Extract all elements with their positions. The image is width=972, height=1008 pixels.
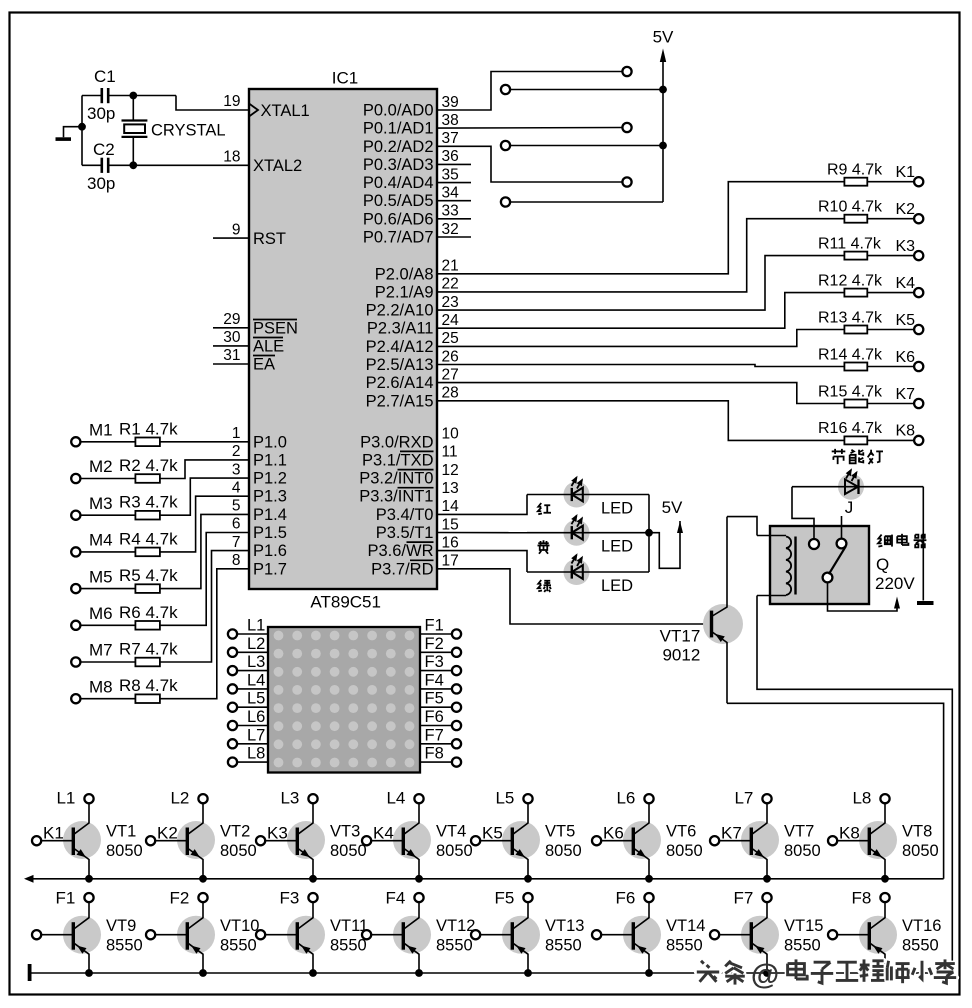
- VT16 emitter: [869, 943, 885, 973]
- svg-text:R7 4.7k: R7 4.7k: [119, 640, 178, 659]
- svg-text:L1: L1: [247, 617, 265, 635]
- terminal K5: [914, 325, 923, 334]
- VT12 collector: [403, 902, 419, 929]
- wire crystal top: [132, 96, 134, 121]
- wire LED bus to 5V arrow: [649, 521, 680, 568]
- VT4 emitter: [403, 848, 419, 879]
- VT7 collector: [751, 803, 767, 834]
- wire P0.3 stub pin 36: [437, 163, 471, 165]
- terminal M4: [71, 547, 80, 556]
- svg-text:3: 3: [232, 461, 241, 478]
- svg-text:8550: 8550: [436, 936, 473, 954]
- wire C1 right to node: [110, 95, 177, 97]
- node VT13 emitter junction: [524, 969, 532, 977]
- transistor VT5 body circle: [502, 821, 540, 859]
- svg-text:L5: L5: [495, 789, 514, 808]
- wire VT15 base: [719, 934, 751, 936]
- wire VT12 base: [371, 934, 403, 936]
- VT8 emitter arrow (NPN): [873, 849, 882, 857]
- wire VT17 emitter to NPN bus: [727, 703, 944, 879]
- terminal M8: [71, 694, 80, 703]
- svg-text:10: 10: [442, 426, 460, 443]
- terminal L6 bottom: [644, 794, 653, 803]
- wire matrix to F7: [420, 743, 452, 745]
- svg-text:P0.0/AD0: P0.0/AD0: [363, 102, 434, 120]
- resistor R11: [844, 252, 867, 260]
- terminal F5 matrix: [452, 703, 461, 712]
- 5V arrow top: [660, 49, 666, 63]
- terminal K3 bottom: [256, 836, 265, 845]
- terminal F2 bottom: [198, 893, 207, 902]
- VT5 base bar: [511, 828, 514, 856]
- VT17 emitter arrow (PNP): [715, 634, 725, 642]
- wire M6 to resistor: [80, 624, 135, 626]
- svg-text:5V: 5V: [653, 28, 674, 47]
- wire L5 to matrix: [237, 706, 268, 708]
- svg-text:VT5: VT5: [545, 823, 575, 841]
- VT8 collector: [869, 803, 885, 834]
- svg-text:F7: F7: [734, 889, 754, 908]
- svg-text:VT8: VT8: [902, 823, 932, 841]
- VT7 base bar: [750, 828, 753, 856]
- transistor VT14 body circle: [623, 916, 661, 954]
- svg-text:P2.3/A11: P2.3/A11: [367, 320, 434, 338]
- svg-text:P3.1/TXD: P3.1/TXD: [362, 451, 434, 469]
- VT12 base bar: [402, 922, 405, 950]
- svg-text:PSEN: PSEN: [253, 320, 298, 338]
- watermark toutiao text: [697, 961, 719, 982]
- wire VT16 base: [837, 934, 869, 936]
- svg-text:VT9: VT9: [106, 917, 136, 935]
- VT7 emitter arrow (NPN): [755, 849, 764, 857]
- IC U1 AT89C51 body: [249, 89, 437, 589]
- label huang (yellow) chinese: [538, 540, 550, 554]
- svg-text:39: 39: [442, 94, 459, 111]
- wire lamp right to neutral: [922, 487, 924, 601]
- svg-text:R1 4.7k: R1 4.7k: [119, 419, 178, 438]
- svg-text:L8: L8: [247, 745, 265, 763]
- svg-text:R6 4.7k: R6 4.7k: [119, 603, 178, 622]
- node VT10 emitter junction: [199, 969, 207, 977]
- capacitor C2: [101, 158, 104, 173]
- terminal M2: [71, 474, 80, 483]
- terminal F5 bottom: [523, 893, 532, 902]
- wire ALE stub: [213, 345, 249, 347]
- transistor VT17 body circle: [703, 604, 743, 644]
- svg-text:R16 4.7k: R16 4.7k: [818, 420, 883, 437]
- VT5 emitter: [512, 848, 528, 879]
- svg-text:P0.7/AD7: P0.7/AD7: [363, 229, 434, 247]
- node VT3 emitter junction: [309, 875, 317, 883]
- VT4 base bar: [402, 828, 405, 856]
- wire R16 to K8: [867, 439, 914, 441]
- resistor R16: [844, 436, 867, 444]
- transistor VT11 body circle: [287, 916, 325, 954]
- label lv (green) chinese: [538, 580, 551, 592]
- wire P2.3 to R12: [437, 293, 844, 329]
- wire P0.7 stub pin 32: [437, 236, 471, 238]
- svg-text:K2: K2: [157, 824, 178, 843]
- wire R7 to pin P1.6: [160, 551, 249, 662]
- terminal connector row3 left (5V): [501, 197, 510, 206]
- svg-text:L3: L3: [280, 789, 299, 808]
- svg-text:XTAL1: XTAL1: [261, 102, 310, 120]
- VT13 emitter: [512, 943, 528, 973]
- terminal L4 bottom: [414, 794, 423, 803]
- svg-text:31: 31: [223, 347, 240, 364]
- svg-text:12: 12: [442, 462, 459, 479]
- wire relay coil bottom to PNP bus: [757, 596, 952, 974]
- svg-text:30p: 30p: [87, 174, 115, 193]
- terminal F6 matrix: [452, 721, 461, 730]
- svg-text:F6: F6: [425, 708, 444, 726]
- resistor R3: [135, 511, 160, 520]
- wire matrix to F5: [420, 706, 452, 708]
- svg-text:P2.2/A10: P2.2/A10: [366, 302, 434, 320]
- svg-text:P3.3/INT1: P3.3/INT1: [359, 488, 433, 506]
- wire matrix to F6: [420, 725, 452, 727]
- transistor VT1 body circle: [63, 821, 101, 859]
- wire R14 to K6: [867, 366, 914, 368]
- resistor R6: [135, 621, 160, 630]
- terminal M1: [71, 437, 80, 446]
- svg-text:8550: 8550: [784, 936, 821, 954]
- resistor R10: [844, 215, 867, 223]
- svg-text:C1: C1: [94, 67, 116, 86]
- crystal Y1 symbol: [122, 119, 148, 121]
- svg-text:P1.6: P1.6: [253, 542, 287, 560]
- right LED bus vertical: [648, 495, 650, 573]
- svg-text:30p: 30p: [87, 104, 115, 123]
- resistor R8: [135, 694, 160, 703]
- VT10 collector: [187, 902, 203, 929]
- wire LED red row: [527, 494, 649, 496]
- wire VT14 base: [601, 934, 633, 936]
- svg-text:R2 4.7k: R2 4.7k: [119, 456, 178, 475]
- wire J stub: [841, 516, 843, 539]
- svg-text:14: 14: [442, 498, 460, 515]
- wire R2 to pin P1.1: [160, 460, 249, 479]
- VT12 emitter: [403, 943, 419, 973]
- svg-text:8050: 8050: [106, 842, 143, 860]
- wire ground to node: [64, 127, 83, 138]
- dot matrix display body: [268, 627, 420, 773]
- terminal F7 matrix: [452, 739, 461, 748]
- wire VT17 collector to relay coil: [727, 517, 757, 536]
- svg-text:P1.0: P1.0: [253, 433, 287, 451]
- VT15 emitter arrow (PNP): [755, 946, 764, 954]
- XTAL1 clock input symbol: [249, 104, 258, 117]
- LED D3 green body circle: [564, 559, 590, 585]
- wire P3.5 to yellow LED row: [437, 532, 527, 534]
- relay coil core bar: [794, 537, 796, 595]
- terminal VT9 base: [32, 930, 41, 939]
- terminal K4 bottom: [362, 836, 371, 845]
- VT2 emitter arrow (NPN): [191, 849, 200, 857]
- svg-text:25: 25: [442, 330, 459, 347]
- terminal K3: [914, 251, 923, 260]
- terminal L2 bottom: [198, 794, 207, 803]
- terminal VT12 base: [362, 930, 371, 939]
- svg-text:K8: K8: [896, 423, 916, 440]
- svg-text:P1.3: P1.3: [253, 488, 287, 506]
- wire P2.6 to R15: [437, 383, 844, 404]
- VT5 emitter arrow (NPN): [516, 849, 525, 857]
- relay contact moving: [823, 573, 833, 583]
- svg-text:F3: F3: [280, 889, 300, 908]
- node VT8 emitter junction: [881, 875, 889, 883]
- svg-text:5V: 5V: [662, 498, 683, 517]
- svg-text:8550: 8550: [666, 936, 703, 954]
- svg-text:16: 16: [442, 534, 459, 551]
- svg-text:LED: LED: [601, 500, 633, 518]
- node VT11 emitter junction: [309, 969, 317, 977]
- VT1 collector: [73, 803, 89, 834]
- svg-text:8050: 8050: [330, 842, 367, 860]
- svg-text:L2: L2: [170, 789, 189, 808]
- svg-text:M8: M8: [89, 677, 113, 696]
- svg-text:34: 34: [442, 185, 460, 202]
- VT3 emitter: [297, 848, 313, 879]
- mains neutral terminal bar: [917, 601, 934, 605]
- svg-text:19: 19: [223, 93, 240, 110]
- svg-text:L3: L3: [247, 653, 265, 671]
- svg-text:P0.2/AD2: P0.2/AD2: [363, 138, 434, 156]
- svg-text:38: 38: [442, 112, 459, 129]
- svg-text:K8: K8: [839, 824, 860, 843]
- svg-text:37: 37: [442, 130, 459, 147]
- svg-text:P1.5: P1.5: [253, 524, 287, 542]
- svg-text:F5: F5: [425, 690, 444, 708]
- transistor VT7 body circle: [741, 821, 779, 859]
- terminal F4 bottom: [414, 893, 423, 902]
- wire P2.7 to R16: [437, 401, 844, 441]
- terminal connector row1 right: [622, 67, 631, 76]
- terminal L8 matrix: [228, 758, 237, 767]
- VT16 emitter arrow (PNP): [873, 946, 882, 954]
- svg-text:IC1: IC1: [332, 69, 358, 88]
- svg-text:VT14: VT14: [666, 917, 705, 935]
- node VT9 emitter junction: [85, 969, 93, 977]
- VT10 emitter arrow (PNP): [191, 946, 200, 954]
- svg-text:36: 36: [442, 148, 459, 165]
- wire relay coil top terminal: [757, 535, 786, 537]
- terminal M5: [71, 584, 80, 593]
- svg-text:P0.5/AD5: P0.5/AD5: [363, 192, 434, 210]
- label relay jidianqi chinese: [878, 535, 892, 547]
- svg-text:18: 18: [223, 149, 240, 166]
- svg-text:R11 4.7k: R11 4.7k: [818, 235, 882, 252]
- wire PSEN stub: [213, 327, 249, 329]
- svg-text:R14 4.7k: R14 4.7k: [818, 346, 883, 363]
- wire L6 to matrix: [237, 725, 268, 727]
- VT11 base bar: [296, 922, 299, 950]
- wire R10 to K2: [867, 218, 914, 220]
- svg-text:VT3: VT3: [330, 823, 360, 841]
- svg-text:F4: F4: [386, 889, 406, 908]
- svg-text:P1.1: P1.1: [253, 451, 287, 469]
- svg-text:L6: L6: [616, 789, 635, 808]
- wire relay common to lamp: [792, 487, 814, 540]
- VT6 emitter arrow (NPN): [637, 849, 646, 857]
- terminal L8 bottom: [880, 794, 889, 803]
- svg-text:R12 4.7k: R12 4.7k: [818, 272, 883, 289]
- terminal connector row1 left (5V): [501, 85, 510, 94]
- terminal L3 matrix: [228, 666, 237, 675]
- svg-text:R15 4.7k: R15 4.7k: [818, 383, 883, 400]
- wire P0.4 stub pin 35: [437, 182, 471, 184]
- wire P2.0 to R9: [437, 182, 844, 274]
- svg-text:R3 4.7k: R3 4.7k: [119, 493, 178, 512]
- wire VT10 base: [155, 934, 187, 936]
- svg-text:VT16: VT16: [902, 917, 941, 935]
- transistor VT12 body circle: [393, 916, 431, 954]
- resistor R7: [135, 658, 160, 667]
- terminal L3 bottom: [308, 794, 317, 803]
- svg-text:L4: L4: [386, 789, 405, 808]
- left vertical wire C1-C2: [81, 96, 83, 166]
- transistor VT8 body circle: [859, 821, 897, 859]
- svg-text:7: 7: [232, 534, 241, 551]
- wire P2.2 to R11: [437, 256, 844, 311]
- relay K box: [770, 526, 869, 604]
- wire C2 left: [82, 164, 101, 166]
- wire K5 to VT5 base: [480, 840, 512, 842]
- svg-text:29: 29: [223, 311, 240, 328]
- wire R5 to pin P1.4: [160, 514, 249, 588]
- wire P2.5 to R14: [437, 365, 844, 367]
- relay coil: [786, 537, 791, 596]
- svg-text:L2: L2: [247, 635, 265, 653]
- VT14 base bar: [632, 922, 635, 950]
- wire P0.5 stub pin 34: [437, 200, 471, 202]
- node VT7 emitter junction: [763, 875, 771, 883]
- svg-text:L1: L1: [56, 789, 75, 808]
- svg-text:2: 2: [232, 443, 241, 460]
- svg-text:8: 8: [232, 552, 241, 569]
- svg-text:EA: EA: [253, 356, 275, 374]
- svg-text:F2: F2: [425, 635, 444, 653]
- VT2 collector: [187, 803, 203, 834]
- VT11 emitter arrow (PNP): [301, 946, 310, 954]
- svg-text:9: 9: [232, 221, 241, 238]
- svg-text:8050: 8050: [545, 842, 582, 860]
- svg-text:21: 21: [442, 258, 459, 275]
- wire R8 to pin P1.7: [160, 569, 249, 699]
- svg-text:P3.5/T1: P3.5/T1: [376, 524, 434, 542]
- transistor VT9 body circle: [63, 916, 101, 954]
- terminal K2: [914, 214, 923, 223]
- lamp LED body circle: [838, 474, 864, 500]
- wire L2 to matrix: [237, 651, 268, 653]
- terminal VT15 base: [710, 930, 719, 939]
- resistor R5: [135, 584, 160, 593]
- terminal L1 bottom: [84, 794, 93, 803]
- LED D1 red body circle: [564, 482, 590, 508]
- svg-text:F1: F1: [56, 889, 76, 908]
- svg-text:K4: K4: [373, 824, 394, 843]
- svg-text:LED: LED: [601, 577, 633, 595]
- svg-text:L5: L5: [247, 690, 265, 708]
- LED D1 red emission arrows: [572, 478, 577, 487]
- svg-text:P2.5/A13: P2.5/A13: [366, 356, 434, 374]
- svg-text:28: 28: [442, 385, 459, 402]
- wire K2 to VT2 base: [155, 840, 187, 842]
- transistor VT16 body circle: [859, 916, 897, 954]
- wire R12 to K4: [867, 292, 914, 294]
- wire L8 to matrix: [237, 761, 268, 763]
- node LED bus junction: [645, 529, 653, 537]
- terminal F8 bottom: [880, 893, 889, 902]
- svg-text:F4: F4: [425, 671, 444, 689]
- wire R3 to pin P1.2: [160, 478, 249, 515]
- terminal K5 bottom: [471, 836, 480, 845]
- VT16 collector: [869, 902, 885, 929]
- VT6 collector: [633, 803, 649, 834]
- node VT12 emitter junction: [415, 969, 423, 977]
- transistor VT4 body circle: [393, 821, 431, 859]
- svg-text:LED: LED: [601, 538, 633, 556]
- svg-text:L4: L4: [247, 671, 265, 689]
- terminal F1 bottom: [84, 893, 93, 902]
- wire VT13 base: [480, 934, 512, 936]
- transistor VT13 body circle: [502, 916, 540, 954]
- wire VT11 base: [265, 934, 297, 936]
- VT8 base bar: [868, 828, 871, 856]
- NPN bus left arrow: [24, 875, 34, 883]
- svg-text:R4 4.7k: R4 4.7k: [119, 529, 178, 548]
- terminal L7 bottom: [762, 794, 771, 803]
- terminal F8 matrix: [452, 758, 461, 767]
- transistor VT3 body circle: [287, 821, 325, 859]
- svg-text:RST: RST: [253, 230, 286, 248]
- svg-text:Q: Q: [876, 555, 889, 574]
- resistor R14: [844, 363, 867, 371]
- svg-text:K1: K1: [43, 824, 64, 843]
- terminal F6 bottom: [644, 893, 653, 902]
- svg-text:L8: L8: [852, 789, 871, 808]
- node 5V junction 1: [659, 86, 667, 94]
- wire P2.1 to R10: [437, 219, 844, 292]
- svg-text:VT17: VT17: [660, 626, 701, 645]
- terminal K7 bottom: [710, 836, 719, 845]
- svg-text:P3.7/RD: P3.7/RD: [371, 560, 433, 578]
- wire matrix to F3: [420, 670, 452, 672]
- terminal F4 matrix: [452, 684, 461, 693]
- svg-text:M2: M2: [89, 457, 113, 476]
- svg-text:VT12: VT12: [436, 917, 475, 935]
- terminal K4: [914, 288, 923, 297]
- VT3 base bar: [296, 828, 299, 856]
- wire matrix to F2: [420, 651, 452, 653]
- svg-text:R10 4.7k: R10 4.7k: [818, 199, 883, 216]
- PNP bus left terminal bar: [28, 964, 32, 981]
- LED D2 yellow body circle: [564, 520, 590, 546]
- terminal K8 bottom: [828, 836, 837, 845]
- wire M7 to resistor: [80, 661, 135, 663]
- 5V arrow mid: [677, 521, 683, 533]
- svg-text:30: 30: [223, 329, 241, 346]
- svg-text:P0.4/AD4: P0.4/AD4: [363, 174, 434, 192]
- VT4 collector: [403, 803, 419, 834]
- svg-text:K7: K7: [896, 386, 916, 403]
- VT3 emitter arrow (NPN): [301, 849, 310, 857]
- VT9 base bar: [72, 922, 75, 950]
- svg-text:9012: 9012: [662, 646, 700, 665]
- svg-text:AT89C51: AT89C51: [310, 593, 381, 612]
- 5V vertical bus: [662, 60, 664, 202]
- svg-text:P3.6/WR: P3.6/WR: [367, 542, 433, 560]
